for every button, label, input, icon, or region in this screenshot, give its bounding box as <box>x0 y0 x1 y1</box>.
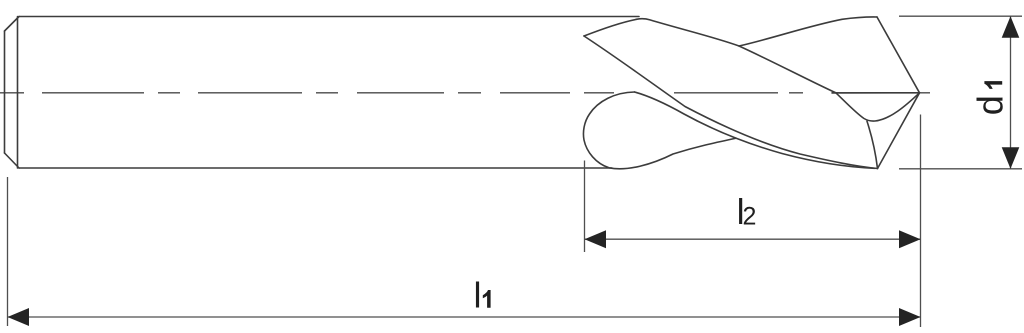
svg-text:l: l <box>474 275 482 316</box>
svg-text:2: 2 <box>743 202 757 230</box>
svg-text:d: d <box>970 95 1011 115</box>
